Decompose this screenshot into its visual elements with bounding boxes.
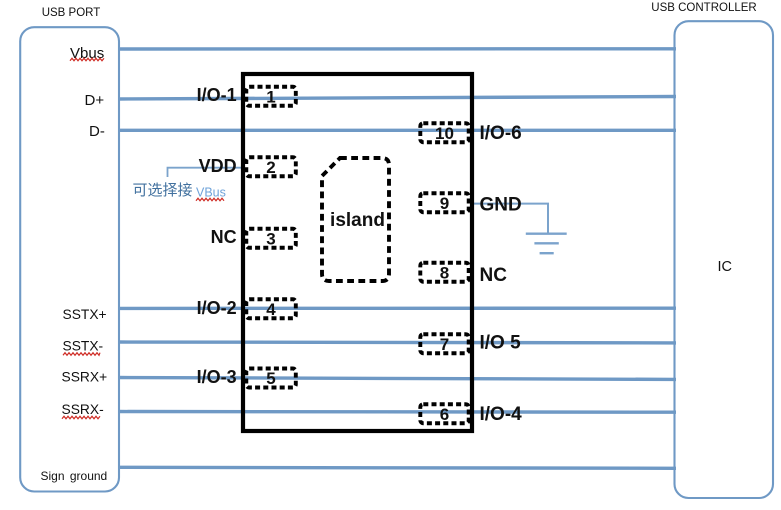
- svg-text:2: 2: [266, 158, 275, 177]
- svg-text:3: 3: [266, 229, 275, 248]
- svg-text:1: 1: [266, 88, 275, 107]
- svg-text:NC: NC: [211, 227, 237, 247]
- svg-text:USB PORT: USB PORT: [42, 7, 101, 19]
- svg-text:10: 10: [435, 124, 454, 143]
- svg-text:NC: NC: [480, 265, 508, 286]
- svg-text:Sign ground: Sign ground: [41, 469, 108, 483]
- svg-text:USB CONTROLLER: USB CONTROLLER: [651, 2, 756, 14]
- svg-text:6: 6: [440, 405, 449, 424]
- svg-text:SSTX-: SSTX-: [63, 339, 104, 354]
- svg-text:7: 7: [440, 335, 449, 354]
- svg-text:9: 9: [440, 194, 449, 213]
- svg-text:GND: GND: [480, 195, 522, 216]
- svg-text:IC: IC: [718, 259, 733, 275]
- svg-text:I/O-3: I/O-3: [197, 367, 237, 387]
- svg-text:I/O-1: I/O-1: [197, 85, 237, 105]
- svg-text:可选择接: 可选择接: [133, 182, 193, 199]
- svg-text:5: 5: [266, 369, 275, 388]
- svg-text:SSRX-: SSRX-: [62, 402, 104, 417]
- svg-text:I/O 5: I/O 5: [480, 332, 522, 353]
- svg-text:4: 4: [266, 300, 276, 319]
- svg-text:D-: D-: [89, 123, 105, 140]
- svg-text:I/O-2: I/O-2: [197, 298, 237, 318]
- svg-text:VDD: VDD: [199, 156, 237, 176]
- svg-text:SSRX+: SSRX+: [62, 370, 108, 385]
- svg-text:I/O-6: I/O-6: [480, 123, 522, 144]
- svg-text:island: island: [330, 210, 385, 231]
- svg-text:VBus: VBus: [196, 186, 226, 200]
- svg-text:8: 8: [440, 263, 449, 282]
- svg-text:SSTX+: SSTX+: [63, 307, 107, 322]
- svg-text:D+: D+: [85, 92, 105, 109]
- svg-text:I/O-4: I/O-4: [480, 404, 523, 425]
